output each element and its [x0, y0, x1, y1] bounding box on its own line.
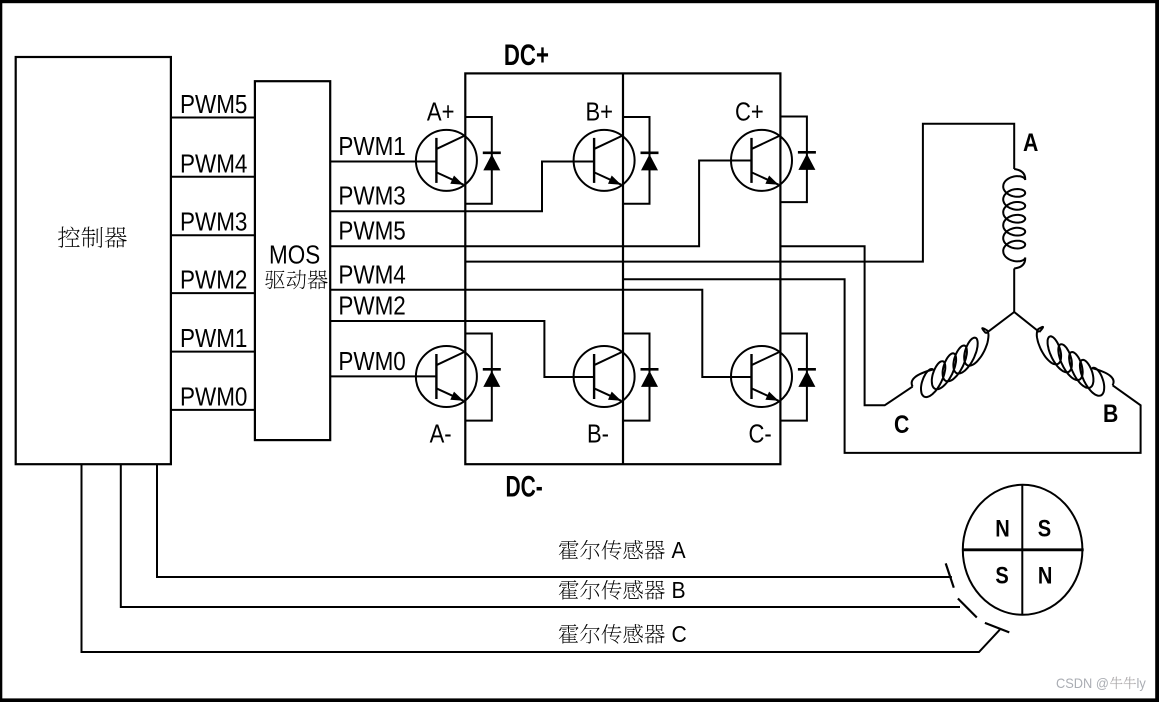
label 驱动器: [265, 270, 327, 289]
rotor vertical divider: [1021, 485, 1023, 615]
hall element C tick: [985, 623, 1009, 633]
svg-text:PWM5: PWM5: [338, 217, 405, 246]
wire PWM2 to B- base: [330, 321, 594, 377]
freewheel diode Q0 A-: [465, 334, 492, 421]
svg-text:PWM0: PWM0: [180, 383, 247, 412]
svg-text:A-: A-: [430, 420, 452, 449]
svg-text:CSDN @: CSDN @: [1056, 676, 1109, 691]
hall rotor circle: [963, 485, 1083, 615]
svg-text:PWM1: PWM1: [180, 325, 247, 354]
svg-text:S: S: [1038, 514, 1051, 541]
wire PWM1 to A+ base: [330, 161, 436, 163]
svg-text:S: S: [995, 562, 1008, 589]
svg-text:PWM4: PWM4: [338, 261, 405, 290]
wire PWM0 to A- base: [330, 375, 436, 377]
svg-text:N: N: [995, 514, 1010, 541]
freewheel diode Q5 C+: [780, 117, 807, 203]
label 控制器: [58, 226, 127, 247]
winding B coil: [1037, 327, 1114, 396]
wire PWM3 to B+ base: [330, 162, 594, 212]
svg-text:PWM0: PWM0: [338, 348, 405, 377]
wire PWM2 controller to driver: [171, 292, 255, 294]
wire PWM4 to C- base: [330, 290, 751, 377]
wire phase B to motor: [623, 279, 1141, 453]
winding C coil: [912, 328, 989, 397]
svg-text:PWM1: PWM1: [338, 133, 405, 162]
wire PWM0 controller to driver: [171, 409, 255, 411]
svg-text:N: N: [1038, 562, 1053, 589]
svg-text:B+: B+: [586, 98, 614, 127]
wire B coil to star point: [1014, 312, 1039, 332]
svg-text:PWM3: PWM3: [338, 182, 405, 211]
transistor Q0 A-: [416, 346, 477, 407]
hall element B tick: [958, 599, 977, 618]
label 霍尔传感器 C: [559, 624, 665, 644]
wire phase A to motor: [465, 124, 1014, 262]
transistor Q1 A+: [416, 130, 477, 191]
transistor Q3 B+: [574, 130, 635, 191]
svg-text:C: C: [672, 621, 687, 647]
svg-text:PWM2: PWM2: [338, 292, 405, 321]
svg-text:ly: ly: [1137, 676, 1147, 691]
svg-text:PWM5: PWM5: [180, 91, 247, 120]
label 霍尔传感器 B: [559, 580, 665, 600]
freewheel diode Q1 A+: [465, 117, 492, 204]
svg-text:B: B: [672, 577, 686, 603]
svg-text:DC+: DC+: [504, 38, 549, 72]
svg-text:PWM2: PWM2: [180, 266, 247, 295]
svg-text:PWM3: PWM3: [180, 208, 247, 237]
MOS driver box U2: [255, 81, 330, 440]
wire hall sensor B: [121, 464, 960, 607]
svg-text:C-: C-: [749, 420, 772, 449]
wire C coil to star point: [986, 312, 1014, 333]
freewheel diode Q3 B+: [623, 117, 650, 204]
wire phase C to motor: [780, 246, 912, 405]
transistor Q2 B-: [574, 346, 635, 407]
svg-text:C+: C+: [735, 98, 764, 127]
svg-text:A: A: [1023, 128, 1039, 156]
phase B bus: [622, 73, 624, 464]
svg-text:A: A: [672, 537, 686, 563]
freewheel diode Q4 C-: [780, 334, 807, 421]
svg-text:B-: B-: [587, 420, 609, 449]
inverter bridge box: [465, 73, 780, 464]
transistor Q5 C+: [731, 130, 792, 191]
wire PWM3 controller to driver: [171, 234, 255, 236]
hall element A tick: [946, 563, 954, 587]
wire PWM1 controller to driver: [171, 351, 255, 353]
wire PWM4 controller to driver: [171, 176, 255, 178]
svg-text:A+: A+: [427, 98, 455, 127]
wire hall sensor A: [157, 464, 952, 577]
svg-text:B: B: [1103, 399, 1118, 427]
controller box U1: [16, 57, 171, 464]
wire PWM5 to C+ base: [330, 161, 751, 247]
winding A coil: [1003, 169, 1025, 269]
wire PWM5 controller to driver: [171, 117, 255, 119]
wire hall sensor C: [82, 464, 1000, 652]
svg-text:DC-: DC-: [506, 471, 543, 503]
svg-text:C: C: [894, 410, 910, 438]
freewheel diode Q2 B-: [623, 334, 650, 421]
svg-text:MOS: MOS: [269, 241, 320, 270]
label 霍尔传感器 A: [559, 540, 665, 560]
rotor horizontal divider: [963, 548, 1084, 551]
svg-text:PWM4: PWM4: [180, 150, 247, 179]
wire A coil to star point: [1013, 269, 1015, 313]
transistor Q4 C-: [731, 346, 792, 407]
